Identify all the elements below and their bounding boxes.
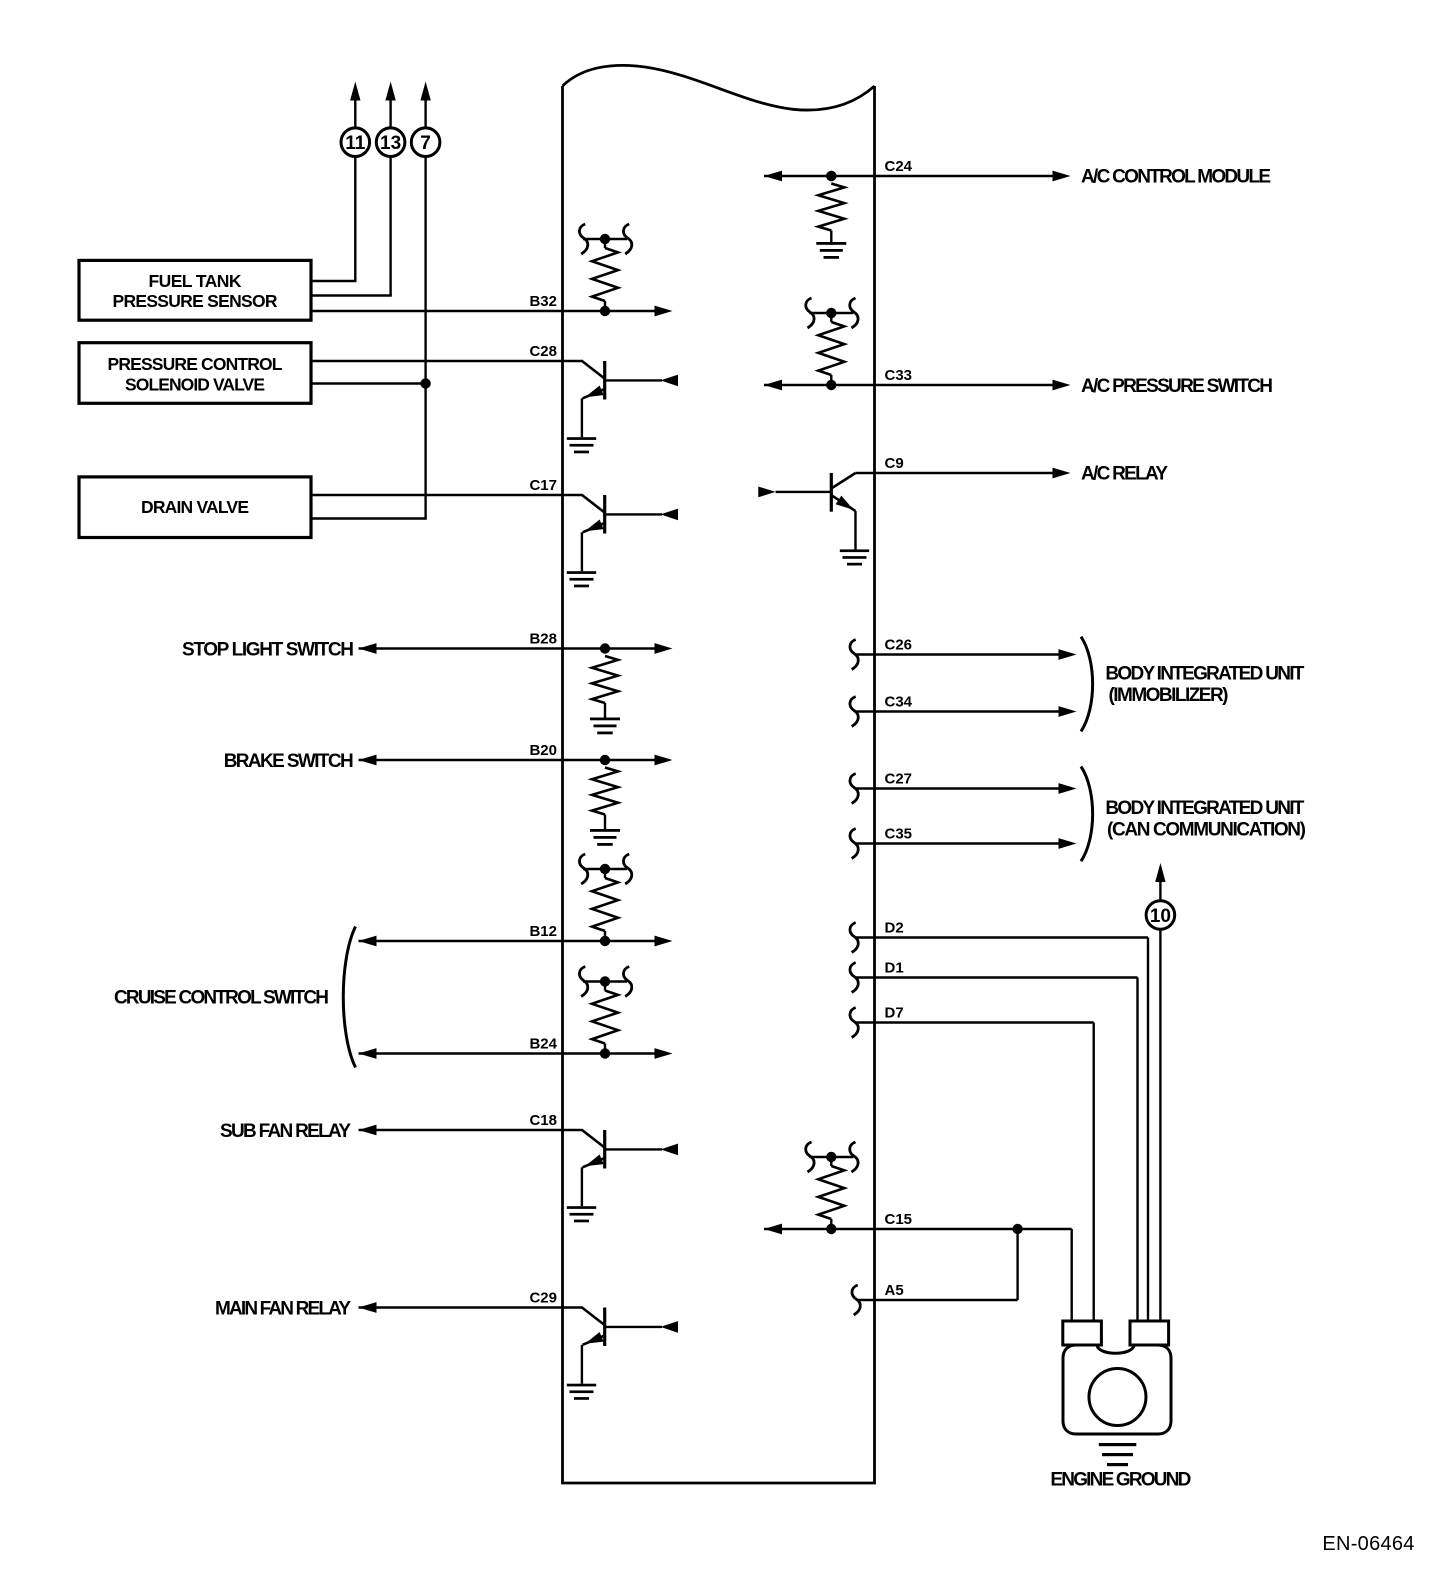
circled connector number 10 [1146,901,1175,930]
svg-text:SUB FAN RELAY: SUB FAN RELAY [220,1121,351,1142]
label SUB FAN RELAY [220,1121,351,1142]
wire B28 (stop light switch) [359,647,656,649]
wire from circled 10 down to engine ground terminal [1159,929,1161,1322]
pin label D7 [885,1005,904,1022]
svg-text:D7: D7 [885,1005,904,1022]
wire B24 (cruise control switch) [359,1052,656,1054]
engine ground lug body [1063,1345,1171,1434]
wire C26 [855,653,1060,655]
cut squiggle at D1 [850,963,858,993]
junction node on C24 [826,171,836,181]
upward arrow above circled 13 [385,82,395,128]
wire D1 [855,978,1138,1323]
wire D7 [855,1023,1094,1323]
svg-text:C9: C9 [885,455,904,472]
cut squiggle at A5 [852,1285,860,1315]
wire D2 [855,938,1148,1323]
junction node on B12 [600,936,610,946]
svg-text:BODY INTEGRATED UNIT: BODY INTEGRATED UNIT [1105,798,1304,819]
svg-text:C24: C24 [885,158,913,175]
svg-text:SOLENOID VALVE: SOLENOID VALVE [125,375,265,395]
svg-text:FUEL TANK: FUEL TANK [149,271,242,291]
wire solenoid valve pin 2 to node 7 [311,382,426,384]
circled connector number 7 [411,128,440,157]
bracket arc BODY INTEGRATED UNIT (CAN COMMUNICATION) [1081,767,1093,862]
svg-text:C28: C28 [529,343,557,360]
junction node on B24 [600,1048,610,1058]
pin label C27 [885,771,913,788]
transistor Q4 (C29 driver) [567,1308,678,1400]
resistor to ground below B28 [592,643,618,717]
svg-text:D2: D2 [885,920,904,937]
label STOP LIGHT SWITCH [182,639,354,660]
cruise control switch bracket arc [343,927,355,1068]
label BRAKE SWITCH [224,751,354,772]
pin label B28 [529,631,557,648]
wire C34 [855,710,1060,712]
junction node on line 7 [420,378,430,388]
upward arrow above circled 10 [1155,863,1165,901]
box DRAIN VALVE [79,477,311,538]
wire C33 (A/C pressure switch) [764,384,1054,386]
label MAIN FAN RELAY [215,1298,351,1319]
cut squiggle at C26 [850,640,858,670]
engine ground terminal (right) [1130,1321,1169,1345]
arrowhead B12 right [655,936,673,947]
cut squiggle at C35 [850,829,858,859]
wire C17 (drain valve drive) [311,494,583,496]
ground below B28 resistor [590,718,620,735]
svg-text:C27: C27 [885,771,913,788]
wire from circled 11 down to fuel tank pressure sensor pin 1 [311,157,357,282]
engine ground terminal (left) [1063,1321,1102,1345]
svg-text:D1: D1 [885,960,904,977]
pin label C34 [885,694,913,711]
circled connector number 11 [341,128,370,157]
pull-up resistor with clamps above C15 [806,1142,858,1229]
pin label C35 [885,826,913,843]
svg-text:B28: B28 [529,631,557,648]
pull-up resistor with clamps above B32 [579,224,631,311]
resistor to ground below B20 [592,755,618,829]
wire C15 [764,1229,1072,1322]
pull-up resistor with clamps above B12 [579,854,631,941]
junction node C15/A5 [1012,1224,1022,1234]
arrowhead B28 right [655,643,673,654]
label CRUISE CONTROL SWITCH [114,988,329,1009]
resistor to ground below C24 [818,171,844,245]
arrowhead C24 right [1053,171,1071,182]
label BODY INTEGRATED UNIT (IMMOBILIZER) [1105,663,1304,706]
svg-text:A/C RELAY: A/C RELAY [1081,464,1168,485]
arrowhead C9 right [1053,468,1071,479]
box FUEL TANK PRESSURE SENSOR [79,260,311,320]
wire B32 (fuel tank pressure sensor signal) [311,310,655,312]
pin label C26 [885,637,913,654]
svg-text:(IMMOBILIZER): (IMMOBILIZER) [1109,685,1229,706]
arrowhead B12 left [359,936,377,947]
cut squiggle at D2 [850,923,858,953]
pin label C29 [529,1290,557,1307]
svg-text:11: 11 [345,133,366,154]
svg-text:ENGINE GROUND: ENGINE GROUND [1050,1470,1191,1491]
upward arrow above circled 7 [420,82,430,128]
svg-text:A/C CONTROL MODULE: A/C CONTROL MODULE [1081,167,1271,188]
transistor Q1 (C28 driver) [567,361,678,453]
svg-text:PRESSURE CONTROL: PRESSURE CONTROL [108,354,283,374]
label A/C RELAY [1081,464,1168,485]
arrowhead C35 right [1059,838,1077,849]
circled connector number 13 [376,128,405,157]
svg-text:BRAKE SWITCH: BRAKE SWITCH [224,751,354,772]
wire B12 (cruise control switch) [359,940,656,942]
upward arrow above circled 11 [350,82,360,128]
wire C29 (main fan relay drive) [359,1306,583,1308]
pin label B32 [529,293,557,310]
wire C35 [855,842,1060,844]
wire C18 (sub fan relay drive) [359,1129,583,1131]
svg-text:DRAIN VALVE: DRAIN VALVE [141,497,249,517]
wire B20 (brake switch) [359,759,656,761]
box PRESSURE CONTROL SOLENOID VALVE [79,343,311,404]
transistor Q3 (C18 driver) [567,1130,678,1222]
junction node on C33 [826,380,836,390]
svg-text:EN-06464: EN-06464 [1322,1533,1414,1555]
bracket arc BODY INTEGRATED UNIT (IMMOBILIZER) [1081,637,1093,732]
pull-up resistor with clamps above C33 [806,298,858,385]
arrowhead B20 right [655,755,673,766]
pin label C9 [885,455,904,472]
cut squiggle at C34 [850,697,858,727]
pin label C24 [885,158,913,175]
ECM torn-paper wavy top edge [563,65,875,110]
arrowhead B24 right [655,1048,673,1059]
svg-text:10: 10 [1150,906,1171,927]
svg-text:A/C PRESSURE SWITCH: A/C PRESSURE SWITCH [1081,376,1273,397]
svg-text:C18: C18 [529,1112,557,1129]
wire drain valve pin 2 to node 7 [311,517,427,519]
wire from circled 13 down to fuel tank pressure sensor pin 2 [311,157,392,296]
pin label A5 [885,1282,904,1299]
ground below B20 resistor [590,829,620,846]
arrowhead C15 left [764,1224,782,1235]
svg-text:C35: C35 [885,826,913,843]
arrowhead B32 right [655,306,673,317]
svg-text:(CAN COMMUNICATION): (CAN COMMUNICATION) [1107,819,1306,840]
pin label C15 [885,1211,913,1228]
svg-text:BODY INTEGRATED UNIT: BODY INTEGRATED UNIT [1105,663,1304,684]
transistor Q2 (C17 driver) [567,495,678,587]
wire C28 (pressure control solenoid valve drive) [311,360,583,362]
svg-text:C15: C15 [885,1211,913,1228]
pull-up resistor with clamps above B24 [579,967,631,1054]
wire C27 [855,787,1060,789]
pin label B20 [529,742,557,759]
label A/C PRESSURE SWITCH [1081,376,1273,397]
arrowhead C33 right [1053,380,1071,391]
arrowhead C34 right [1059,706,1077,717]
svg-text:B32: B32 [529,293,557,310]
pin label B24 [529,1036,557,1053]
svg-text:B20: B20 [529,742,557,759]
label A/C CONTROL MODULE [1081,167,1271,188]
svg-text:B12: B12 [529,923,557,940]
cut squiggle at C27 [850,774,858,804]
svg-text:MAIN FAN RELAY: MAIN FAN RELAY [215,1298,351,1319]
svg-text:PRESSURE SENSOR: PRESSURE SENSOR [113,291,278,311]
svg-text:C29: C29 [529,1290,557,1307]
svg-text:13: 13 [380,133,401,154]
arrowhead C24 left [764,171,782,182]
wire A5 [857,1229,1018,1300]
pin label B12 [529,923,557,940]
svg-text:CRUISE CONTROL SWITCH: CRUISE CONTROL SWITCH [114,988,329,1009]
wire from circled 7 down (to drain valve / solenoid valve) [424,157,426,519]
engine ground symbol [1099,1443,1137,1466]
junction node on B32 [600,306,610,316]
pin label D2 [885,920,904,937]
wire C9 (A/C relay drive) [856,472,1055,474]
arrowhead C26 right [1059,649,1077,660]
svg-text:C17: C17 [529,477,557,494]
svg-text:STOP LIGHT SWITCH: STOP LIGHT SWITCH [182,639,354,660]
svg-text:B24: B24 [529,1036,557,1053]
wire C24 (A/C control module) [764,175,1054,177]
pin label C28 [529,343,557,360]
arrowhead B20 left [359,755,377,766]
svg-text:A5: A5 [885,1282,904,1299]
pin label C17 [529,477,557,494]
label BODY INTEGRATED UNIT (CAN COMMUNICATION) [1105,798,1306,841]
arrowhead C33 left [764,380,782,391]
arrowhead C18 left [359,1125,377,1136]
cut squiggle at D7 [850,1008,858,1038]
engine ground lug hole [1089,1369,1146,1426]
svg-text:C33: C33 [885,367,913,384]
arrowhead B24 left [359,1048,377,1059]
ECM outline (left edge, bottom edge, right edge) [563,86,875,1483]
pin label D1 [885,960,904,977]
svg-text:C34: C34 [885,694,913,711]
svg-text:7: 7 [420,133,431,154]
pin label C33 [885,367,913,384]
arrowhead C27 right [1059,783,1077,794]
label ENGINE GROUND [1050,1470,1191,1491]
arrowhead B28 left [359,643,377,654]
junction node on C15 at resistor [826,1224,836,1234]
svg-text:C26: C26 [885,637,913,654]
transistor Q5 (C9 driver) [758,473,869,566]
ground below C24 resistor [816,242,846,259]
pin label C18 [529,1112,557,1129]
figure number EN-06464 [1322,1533,1414,1555]
arrowhead C29 left [359,1302,377,1313]
